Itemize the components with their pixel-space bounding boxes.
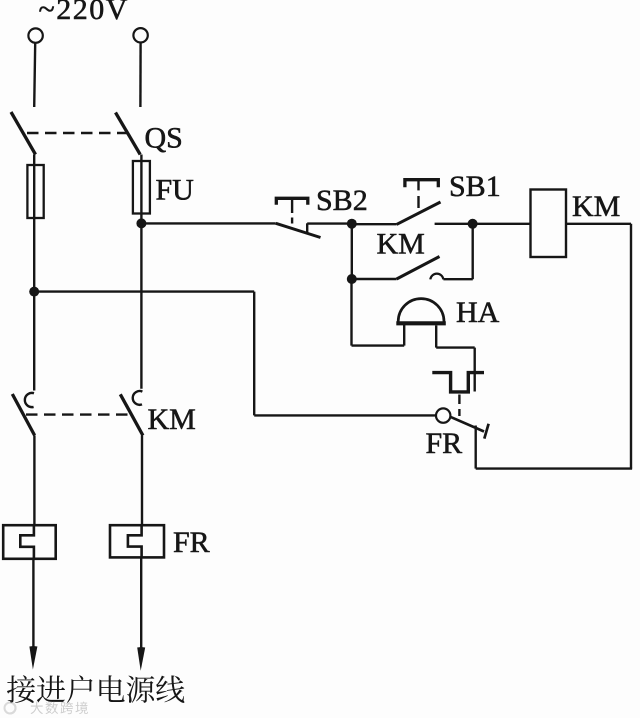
svg-text:SB1: SB1 [449, 170, 501, 203]
wire C down to HA branch [350, 279, 352, 346]
thermal element FR right jog [128, 525, 142, 557]
pushbutton SB2 cap [276, 198, 308, 205]
terminal right circle [133, 28, 147, 42]
contactor KM main left blade [12, 394, 34, 435]
watermark icon [5, 703, 16, 714]
svg-text:FR: FR [426, 427, 463, 460]
svg-text:FR: FR [173, 526, 210, 559]
wire A down to C [351, 224, 353, 279]
bell HA base [396, 321, 446, 325]
thermal element FR left body [3, 525, 56, 559]
svg-text:FU: FU [156, 174, 195, 207]
wire right through fuse [140, 155, 142, 224]
wire node A to SB1 [352, 223, 397, 225]
pushbutton SB1 blade [397, 202, 441, 224]
wire drop to FR run [253, 292, 255, 416]
arrow right head [137, 647, 145, 671]
node junction on left line [29, 287, 39, 297]
switch QS left pole blade [11, 112, 36, 155]
wire right drop from terminal [139, 43, 142, 107]
svg-text:KM: KM [377, 228, 425, 261]
pushbutton SB1 cap [405, 180, 438, 188]
pushbutton SB1 plunger dash [417, 196, 419, 208]
wire junction to SB2 [141, 222, 275, 224]
fuse FU left body [27, 165, 43, 218]
contactor KM main right hook [133, 391, 143, 405]
svg-text:QS: QS [145, 122, 183, 155]
FR contact tick [484, 424, 488, 439]
contactor KM main right blade [120, 394, 143, 435]
contactor KM main left hook [25, 393, 34, 407]
switch QS right pole blade [116, 113, 141, 155]
contact KM aux blade [397, 257, 440, 280]
wire SB1 to node B [435, 223, 473, 225]
arrow left head [29, 646, 37, 670]
pushbutton SB2 plunger [291, 198, 293, 213]
svg-text:HA: HA [456, 296, 500, 329]
wire left through fuse [33, 155, 35, 292]
node A [347, 219, 357, 229]
pushbutton SB2 plunger dash [291, 218, 293, 224]
switch QS dashed link [27, 132, 128, 134]
wire long run to FR contact [254, 414, 436, 416]
wire right line to KM main [140, 223, 142, 388]
svg-text:SB2: SB2 [316, 184, 368, 217]
wire coil to right riser [566, 223, 631, 225]
svg-text:~220V: ~220V [39, 0, 129, 26]
wire left drop from terminal [34, 43, 35, 107]
thermal element FR left jog [20, 525, 34, 559]
wire node B to coil [473, 223, 531, 225]
wire KM main left to heater [33, 435, 35, 525]
FR release bracket [432, 373, 484, 392]
contactor KM dashed link [26, 413, 131, 415]
coil KM body [531, 190, 567, 258]
bell HA right leg [435, 326, 437, 348]
FR contact terminal circle [436, 408, 450, 422]
pushbutton SB2 blade [276, 223, 321, 237]
wire FR to bottom return [475, 426, 477, 469]
bell HA dome [398, 299, 444, 322]
wire C to KM aux contact [352, 278, 397, 280]
bell HA left leg [403, 324, 405, 346]
node junction on right line [136, 218, 146, 228]
wire heater left to arrow [32, 559, 34, 650]
wire right return riser [630, 224, 632, 469]
wire left line to KM main [33, 292, 35, 391]
wire KM aux to right riser [443, 278, 472, 280]
pushbutton SB2 right stop stub [306, 223, 308, 233]
terminal left circle [28, 28, 42, 42]
wire SB2 to node A [307, 222, 352, 224]
fuse FU right body [133, 161, 150, 214]
wire bottom return [476, 467, 632, 469]
wire bell to FR drop [436, 346, 475, 348]
node C [347, 274, 357, 284]
wire heater right to arrow [140, 557, 142, 651]
FR mechanical dashed link [458, 395, 460, 417]
wire drop to FR release [474, 348, 476, 392]
wire to bell left leg [352, 344, 405, 346]
thermal element FR right body [110, 525, 164, 557]
pushbutton SB1 plunger [417, 180, 419, 191]
svg-text:KM: KM [572, 190, 620, 223]
wire node B down to aux [472, 224, 474, 279]
svg-text:KM: KM [148, 403, 196, 436]
contact KM aux hook arc [430, 274, 443, 280]
FR contact blade [450, 417, 484, 432]
wire left junction to drop [34, 290, 254, 292]
node B [468, 219, 478, 229]
wire KM main right to heater [141, 435, 143, 525]
watermark text [31, 702, 88, 715]
caption 接进户电源线 [7, 675, 184, 703]
